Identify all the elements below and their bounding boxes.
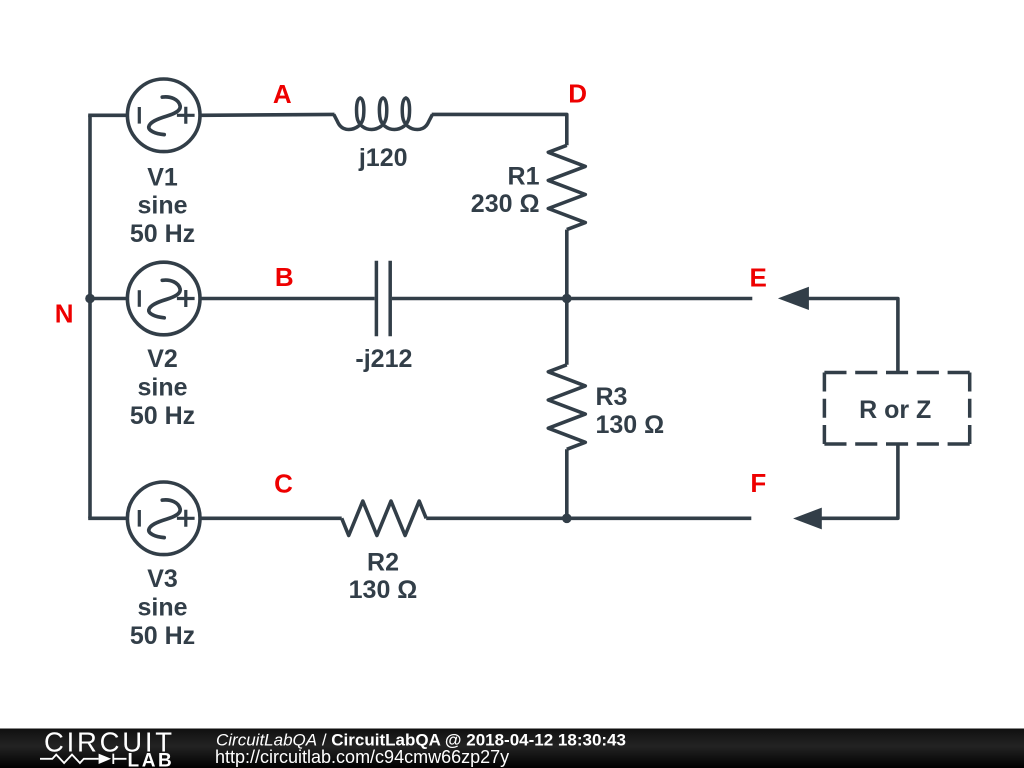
svg-text:50 Hz: 50 Hz — [130, 220, 195, 248]
arrowhead at node E — [778, 287, 809, 310]
svg-text:V3: V3 — [147, 565, 178, 593]
wire row A: inductor to corner D, down to R1 — [432, 114, 567, 145]
svg-text:j120: j120 — [358, 144, 408, 172]
CircuitLab logo symbol: resistor zigzag and diode — [40, 754, 127, 764]
svg-text:N: N — [55, 299, 74, 329]
node F junction dot — [562, 514, 572, 524]
svg-text:sine: sine — [137, 192, 187, 220]
svg-text:A: A — [273, 79, 292, 109]
wire R1 bottom lead to node E — [565, 230, 569, 299]
svg-text:R1: R1 — [508, 162, 540, 190]
svg-text:50 Hz: 50 Hz — [130, 402, 195, 430]
wire R3 bottom lead to node F — [565, 449, 569, 518]
svg-text:50 Hz: 50 Hz — [130, 622, 195, 650]
svg-text:R or Z: R or Z — [859, 396, 931, 424]
wire row B: capacitor to E end — [392, 297, 752, 301]
svg-text:R2: R2 — [367, 548, 399, 576]
svg-text:R3: R3 — [596, 383, 628, 411]
voltage source V3 — [127, 482, 200, 555]
wire row C: bus to V3 — [88, 516, 127, 520]
svg-text:http://circuitlab.com/c94cmw66: http://circuitlab.com/c94cmw66zp27y — [215, 747, 509, 767]
capacitor C (-j212) — [376, 261, 390, 337]
wire left bus N vertical — [88, 115, 92, 518]
resistor R3 — [548, 365, 585, 450]
svg-text:D: D — [568, 79, 587, 109]
wire row A: V1 to inductor — [200, 113, 335, 118]
voltage source V2 — [127, 262, 200, 335]
svg-text:LAB: LAB — [128, 750, 175, 768]
svg-text:C: C — [274, 468, 293, 498]
svg-text:130 Ω: 130 Ω — [349, 576, 418, 604]
wire row A: bus to V1 — [88, 114, 127, 118]
voltage source V1 — [127, 79, 200, 152]
arrowhead at node F — [793, 508, 822, 530]
wire row B: V2 to capacitor — [200, 297, 375, 301]
load box R or Z (dashed) — [824, 373, 969, 445]
svg-text:-j212: -j212 — [355, 345, 412, 373]
svg-text:130 Ω: 130 Ω — [596, 411, 665, 439]
svg-text:230 Ω: 230 Ω — [471, 190, 540, 218]
svg-text:E: E — [750, 263, 767, 293]
node N junction dot — [85, 294, 95, 304]
wire row C: V3 to R2 — [200, 516, 342, 520]
wire arrow E to load: horizontal and down to box — [808, 299, 898, 374]
wire row B: bus to V2 — [90, 297, 128, 301]
svg-text:V2: V2 — [147, 345, 178, 373]
inductor L (j120) — [334, 98, 433, 130]
svg-text:V1: V1 — [147, 164, 178, 192]
svg-text:F: F — [750, 468, 766, 498]
node E junction dot — [562, 294, 572, 304]
wire R3 top lead from node E — [565, 299, 569, 365]
wire load box to arrow F: down and left — [821, 444, 898, 519]
svg-text:sine: sine — [137, 594, 187, 622]
svg-text:sine: sine — [137, 374, 187, 402]
resistor R1 — [548, 145, 585, 229]
wire row C: R2 to F end — [426, 516, 751, 520]
svg-text:B: B — [275, 262, 294, 292]
resistor R2 — [342, 501, 427, 535]
